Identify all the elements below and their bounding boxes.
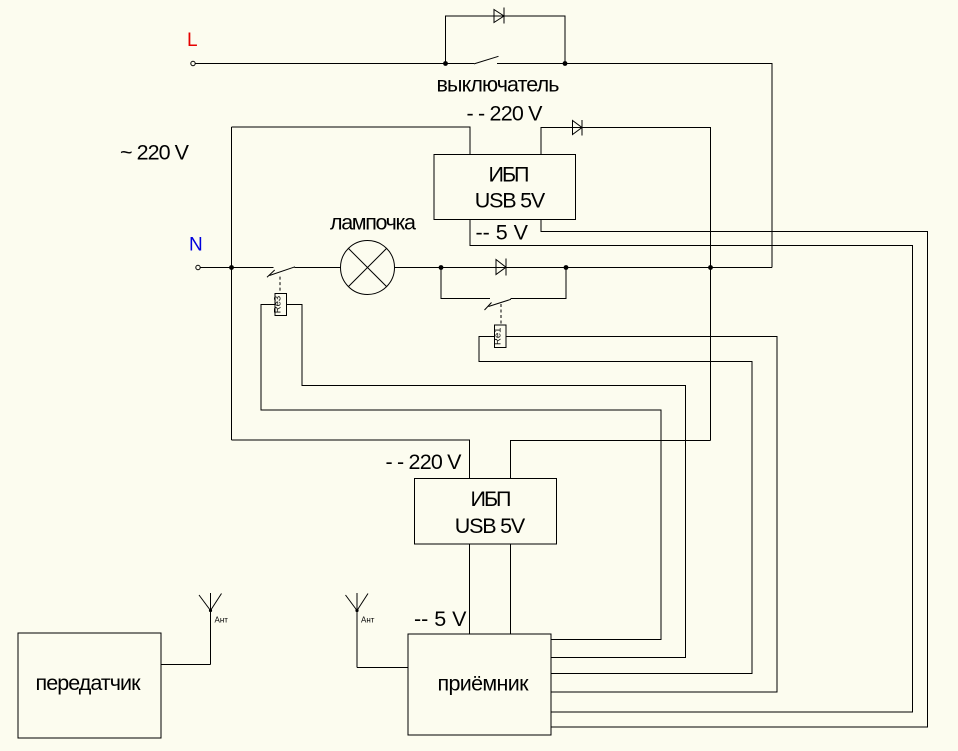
switch выключатель blade [474,56,499,64]
junction lamp line x231 [229,265,234,270]
wire IBP1 5V right out [541,220,928,728]
diode D1 [494,8,504,24]
wire IBP1 top-right feed [541,128,711,441]
wire IBP1 top-left feed [232,127,471,155]
antenna A2 [346,593,369,668]
svg-text:- - 220 V: - - 220 V [467,102,544,126]
wire L line right [497,64,772,268]
wire Re1 contact loop right [511,268,567,299]
junction x566 [564,265,569,270]
svg-text:-- 5 V: -- 5 V [476,221,529,245]
wire bypass loop left [446,16,566,64]
junction x441 [439,265,444,270]
relay coil Re1 [493,325,507,347]
wire contact to lamp [295,267,341,269]
svg-text:приёмник: приёмник [438,672,530,696]
wire Re3 coil left loop [261,304,661,639]
diode D2 [573,120,583,136]
wire N to relay contact [201,267,274,269]
wire Re1 coil right loop [506,336,777,692]
svg-text:ИБП: ИБП [489,163,530,187]
svg-text:Ант: Ант [215,616,229,625]
wire L line [196,63,475,65]
svg-text:выключатель: выключатель [437,73,560,97]
svg-text:~ 220 V: ~ 220 V [120,141,190,165]
wire Re1 contact loop left [441,268,490,299]
box передатчик [18,633,161,738]
relay contact Re3 blade [267,267,295,293]
diode D3 [496,259,506,276]
junction on L line left [443,61,448,66]
junction on L line right [563,61,568,66]
box UPS U2 [415,479,557,545]
node N terminal [189,235,203,270]
svg-text:USB 5V: USB 5V [455,514,526,538]
box приёмник [408,634,551,735]
lamp (circle with X) [341,241,395,295]
svg-text:передатчик: передатчик [36,671,142,695]
box UPS U1 [434,155,576,220]
wire 220V feed to IBP2 left [232,440,470,479]
wire 220V feed to IBP2 right [511,441,711,479]
svg-text:лампочка: лампочка [330,211,416,235]
wire IBP1 5V left out [470,220,913,713]
wire A1 to transmitter [161,664,211,666]
svg-text:L: L [187,30,198,51]
svg-text:-- 5 V: -- 5 V [414,607,467,631]
svg-text:- - 220 V: - - 220 V [386,450,463,474]
relay coil Re3 [273,293,287,315]
wire IBP2 5V left down [469,544,471,634]
node L terminal [187,30,198,66]
svg-text:USB 5V: USB 5V [475,189,546,213]
svg-text:ИБП: ИБП [471,487,512,511]
wire A2 to receiver [357,667,408,669]
wire lamp to diode D3 [395,267,773,269]
wire IBP2 5V right down [510,544,512,634]
relay contact Re1 blade [485,299,512,325]
junction x710 [708,265,713,270]
antenna A1 [199,593,222,665]
svg-text:N: N [189,235,203,256]
wire Re1 coil left loop [479,336,752,673]
wire left riser [231,127,233,440]
wire Re3 coil right loop [287,304,686,657]
svg-text:Ант: Ант [361,616,375,625]
